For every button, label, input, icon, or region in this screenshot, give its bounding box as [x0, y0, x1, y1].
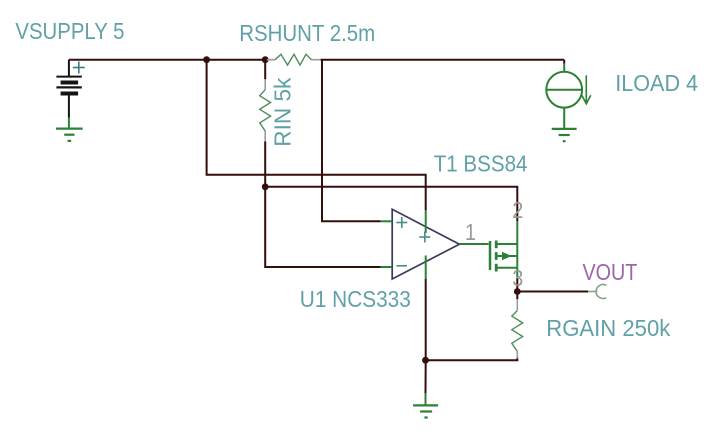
- gate bar: [489, 241, 492, 270]
- op-amp V- pin: [425, 256, 427, 280]
- drain terminal (top, pin 2 side): [497, 243, 517, 245]
- ground (op-amp V-): [413, 393, 438, 417]
- source terminal (bottom, pin 3 side): [497, 267, 517, 269]
- pin 3 stub: [516, 268, 518, 278]
- ground (battery): [56, 118, 83, 141]
- transistor T1 BSS84: [490, 221, 517, 278]
- svg-text:VOUT: VOUT: [583, 259, 638, 285]
- op-amp +IN pin: [381, 220, 393, 222]
- VOUT port symbol: [588, 285, 606, 299]
- resistor RIN (body): [260, 90, 271, 131]
- wire: RIN bottom to node B: [264, 141, 266, 186]
- wire: node B down to op-amp -IN: [265, 187, 381, 267]
- junction node (rail / RIN top): [262, 56, 269, 63]
- battery VSUPPLY: [56, 60, 81, 118]
- right connector bar: [516, 244, 518, 268]
- transistor body arrow: [502, 252, 512, 261]
- resistor RSHUNT (body): [275, 54, 312, 65]
- svg-text:RIN 5k: RIN 5k: [270, 77, 296, 146]
- op-amp +IN mark: [396, 217, 407, 228]
- wire: top rail right (RSHUNT right to ILOAD corner): [321, 59, 565, 61]
- svg-text:U1 NCS333: U1 NCS333: [300, 286, 411, 312]
- svg-text:T1 BSS84: T1 BSS84: [434, 151, 528, 177]
- svg-text:RGAIN 250k: RGAIN 250k: [546, 315, 670, 341]
- op-amp -IN pin: [381, 266, 393, 268]
- svg-text:3: 3: [512, 265, 523, 291]
- svg-text:ILOAD 4: ILOAD 4: [615, 70, 698, 96]
- channel segment bottom: [495, 264, 498, 272]
- wire: VOUT node to RGAIN top: [516, 292, 518, 300]
- pin 2 stub: [516, 221, 518, 244]
- junction node A (rail / V+ run): [203, 56, 210, 63]
- junction node B (RIN bottom / gate run / -IN run): [262, 183, 269, 190]
- resistor RGAIN (body): [512, 311, 523, 352]
- op-amp V+ pin: [425, 210, 427, 233]
- svg-text:1: 1: [465, 219, 476, 245]
- svg-text:VSUPPLY 5: VSUPPLY 5: [15, 18, 124, 44]
- svg-text:RSHUNT 2.5m: RSHUNT 2.5m: [239, 20, 375, 46]
- wire: op-amp V- down to ground node: [425, 279, 427, 393]
- resistor RGAIN (pins): [516, 299, 518, 359]
- resistor RSHUNT (pins): [267, 59, 321, 61]
- channel segment middle: [495, 252, 498, 260]
- body terminal line: [497, 255, 517, 257]
- wire: RGAIN bottom to ground node: [426, 358, 518, 361]
- wire: shunt sense to op-amp +IN: [322, 60, 381, 222]
- current source ILOAD: [546, 63, 582, 129]
- channel segment top: [495, 241, 498, 249]
- junction node VOUT: [514, 288, 521, 295]
- svg-text:2: 2: [512, 197, 523, 223]
- wire: ILOAD corner stub: [563, 60, 565, 64]
- wire: T1 drain to VOUT node: [516, 278, 518, 292]
- wire: RIN top connection: [264, 60, 266, 80]
- ILOAD direction arrow: [582, 75, 591, 104]
- op-amp V+ mark: [419, 232, 430, 243]
- op-amp U1 triangle: [392, 209, 459, 279]
- wire: VOUT node to port: [517, 291, 588, 293]
- ground (ILOAD): [552, 129, 577, 141]
- wire: V+ supply run (node A down, across, down to op-amp V+): [207, 60, 426, 210]
- resistor RIN (pins): [264, 79, 266, 141]
- wire: top rail left (battery to RSHUNT left stub): [69, 59, 267, 61]
- op-amp -IN mark: [397, 265, 408, 267]
- battery plus mark: [73, 62, 85, 74]
- op-amp output pin (pin 1): [459, 243, 488, 245]
- wire: node B to T1 source (pin 2): [265, 187, 517, 221]
- junction node ground: [422, 357, 429, 364]
